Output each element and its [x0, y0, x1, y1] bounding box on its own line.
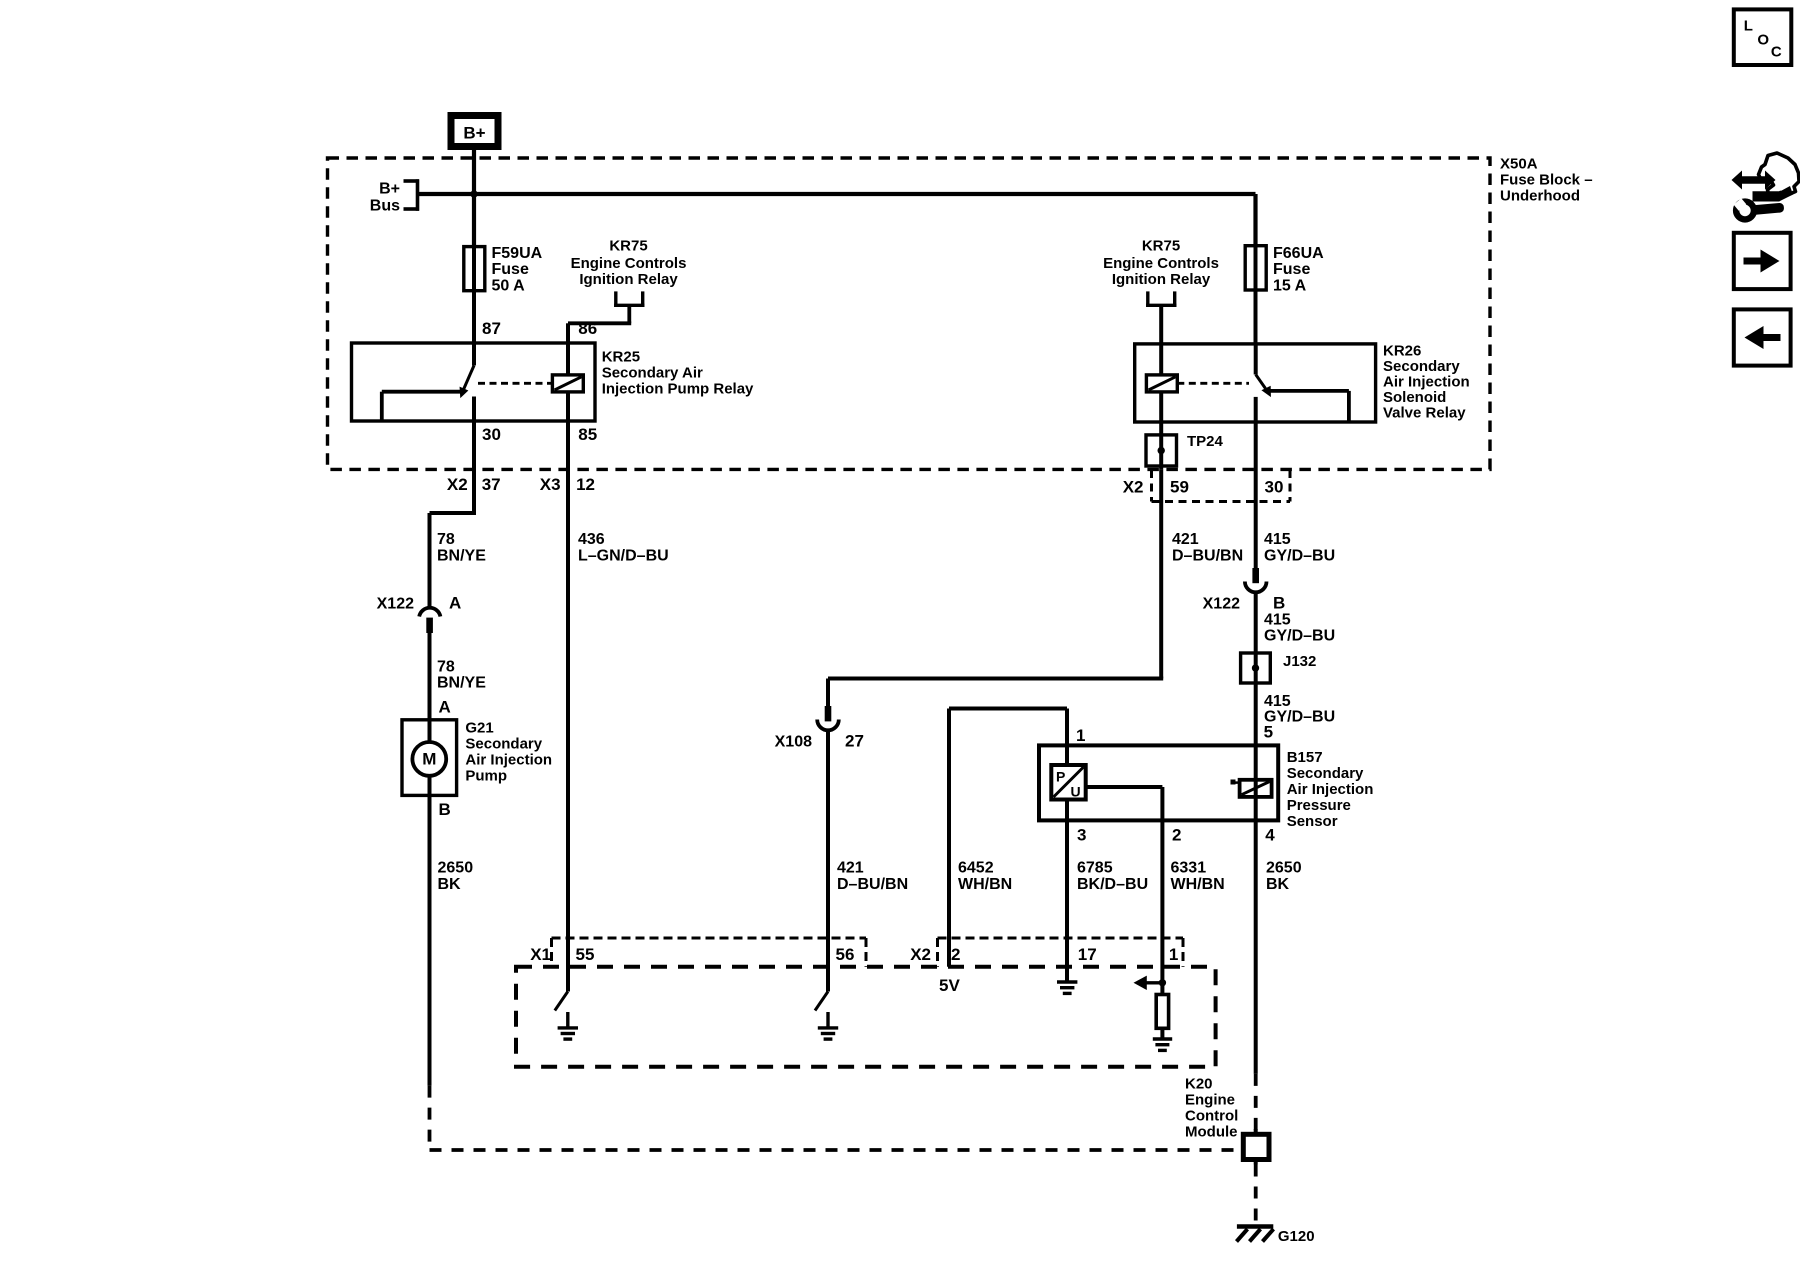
label wire 78 BN/YE upper: [437, 531, 486, 565]
label wire 421 D-BU/BN (upper right): [1172, 531, 1243, 565]
svg-text:17: 17: [1078, 945, 1097, 964]
inline connector X122 B symbol: [1245, 568, 1267, 592]
label wire 415 GY/D-BU lower: [1264, 693, 1335, 726]
relay KR25 coil: [552, 375, 583, 392]
label wire 2650 BK left: [438, 860, 474, 894]
relay KR26 coil: [1146, 375, 1177, 392]
svg-text:56: 56: [836, 945, 855, 964]
svg-text:L–GN/D–BU: L–GN/D–BU: [578, 548, 669, 565]
ground G120 symbol: [1237, 1227, 1274, 1242]
svg-text:1: 1: [1169, 945, 1178, 964]
splice box (ground junction): [1243, 1129, 1269, 1165]
junction B+ bus: [470, 190, 477, 197]
inline connector X122 A symbol: [419, 608, 440, 633]
svg-text:12: 12: [576, 475, 595, 494]
wire ECM X2-2 5V to sensor pin 1: [949, 709, 1067, 967]
svg-text:415: 415: [1264, 531, 1291, 548]
connector X2 dashed box (ECM): [938, 938, 1184, 967]
relay KR25 pin 30 wire: [472, 397, 476, 422]
wire KR75 left to KR25 pin 86: [568, 305, 631, 343]
svg-text:X2: X2: [447, 475, 468, 494]
label KR75 Engine Controls Ignition Relay (right): [1103, 238, 1219, 289]
svg-text:TP24: TP24: [1187, 433, 1224, 450]
wire through pump G21: [428, 720, 432, 796]
svg-text:KR26: KR26: [1383, 343, 1421, 360]
sensor B157 box: [1039, 745, 1278, 820]
dashed ground run from pump: [430, 1086, 1244, 1150]
svg-text:B: B: [1273, 594, 1285, 613]
svg-text:30: 30: [1265, 478, 1284, 497]
svg-text:BK: BK: [1266, 876, 1290, 893]
svg-text:Secondary Air: Secondary Air: [602, 365, 703, 382]
label wire 78 BN/YE lower: [437, 659, 486, 692]
label KR26 Secondary Air Injection Solenoid Valve Relay: [1383, 343, 1470, 422]
wire bus right vertical to fuse F66UA: [1253, 194, 1257, 246]
svg-text:78: 78: [437, 659, 455, 676]
svg-text:Fuse: Fuse: [492, 261, 529, 278]
splice J132: [1241, 653, 1271, 683]
svg-text:X122: X122: [1203, 596, 1240, 613]
icon arrow left box: [1734, 309, 1791, 365]
svg-text:Fuse Block –: Fuse Block –: [1500, 171, 1593, 188]
wire X2-59 down: [1159, 469, 1163, 678]
label KR25 Secondary Air Injection Pump Relay: [602, 349, 754, 398]
svg-text:27: 27: [845, 732, 864, 751]
bracket under KR75 left: [614, 291, 644, 307]
svg-text:Engine: Engine: [1185, 1091, 1235, 1108]
svg-text:Fuse: Fuse: [1273, 261, 1310, 278]
dashed wire sensor pin 4 to splice: [1254, 1074, 1258, 1134]
label wire 421 D-BU/BN (lower): [837, 860, 908, 894]
svg-text:GY/D–BU: GY/D–BU: [1264, 628, 1335, 645]
relay KR26 switch output wire: [1254, 397, 1258, 422]
svg-text:4: 4: [1265, 825, 1275, 844]
svg-text:X108: X108: [775, 734, 812, 751]
label KR75 Engine Controls Ignition Relay (left): [571, 238, 687, 289]
svg-text:415: 415: [1264, 693, 1291, 710]
svg-text:K20: K20: [1185, 1075, 1213, 1092]
ground (ECM pin 17): [1057, 981, 1077, 994]
svg-text:30: 30: [482, 425, 501, 444]
wire B+ Bus horizontal: [418, 192, 1256, 196]
svg-text:15 A: 15 A: [1273, 278, 1307, 295]
svg-text:Bus: Bus: [370, 198, 400, 215]
label K20 Engine Control Module: [1185, 1075, 1238, 1140]
wire P/U pin 3 down: [1065, 800, 1069, 981]
svg-text:O: O: [1757, 32, 1769, 49]
svg-text:Secondary: Secondary: [1383, 358, 1460, 375]
relay KR25 coil link dashed: [478, 382, 552, 385]
svg-text:B157: B157: [1287, 749, 1323, 766]
svg-text:Air Injection: Air Injection: [1287, 781, 1374, 798]
svg-text:X2: X2: [1123, 478, 1144, 497]
wire sensor pin 1 to P/U: [1065, 745, 1069, 765]
relay KR26 box: [1135, 344, 1376, 422]
ECM driver switch (pin 55): [555, 992, 568, 1011]
svg-text:78: 78: [437, 531, 455, 548]
svg-text:87: 87: [482, 319, 501, 338]
ground (ECM pin 55): [558, 1012, 578, 1039]
svg-text:1: 1: [1076, 726, 1085, 745]
relay KR25 switch pin 87 stub: [472, 343, 476, 366]
svg-text:X2: X2: [910, 945, 931, 964]
svg-text:Engine Controls: Engine Controls: [571, 255, 687, 272]
label wire 6452 WH/BN: [958, 860, 1012, 894]
P/U transducer symbol: [1051, 765, 1085, 800]
svg-text:Injection Pump Relay: Injection Pump Relay: [602, 381, 754, 398]
pressure element symbol: [1231, 780, 1272, 797]
svg-text:L: L: [1744, 18, 1753, 35]
relay KR25 87a contact L-wire: [382, 392, 464, 421]
relay KR25 coil pin 85 wire: [566, 392, 570, 421]
svg-text:F59UA: F59UA: [492, 245, 543, 262]
wire KR75 right to KR26 coil pin 86: [1159, 305, 1163, 344]
fuse block X50A dashed outline: [328, 158, 1491, 469]
relay KR25 box: [352, 343, 596, 421]
svg-text:X50A: X50A: [1500, 155, 1538, 172]
wire through fuse F59UA: [472, 247, 476, 343]
svg-text:G120: G120: [1278, 1228, 1315, 1245]
svg-text:59: 59: [1170, 478, 1189, 497]
svg-text:6785: 6785: [1077, 860, 1113, 877]
label X50A Fuse Block - Underhood: [1500, 155, 1593, 204]
svg-text:85: 85: [578, 425, 597, 444]
relay KR25 switch arm: [460, 366, 474, 397]
wire X108 to ECM X1-56: [826, 731, 830, 992]
svg-text:B+: B+: [379, 181, 400, 198]
svg-text:Solenoid: Solenoid: [1383, 389, 1446, 406]
signal arrow (ECM pin 1): [1134, 976, 1167, 990]
dashed wire splice to G120: [1254, 1165, 1258, 1225]
svg-text:GY/D–BU: GY/D–BU: [1264, 548, 1335, 565]
wire pump G21 to ground run: [428, 795, 432, 1085]
svg-text:WH/BN: WH/BN: [1171, 876, 1225, 893]
wire pin30 to connector X2-37: [472, 421, 476, 513]
svg-text:BN/YE: BN/YE: [437, 675, 486, 692]
bracket under KR75 right: [1146, 291, 1176, 307]
svg-text:2: 2: [951, 945, 960, 964]
fuse F59UA 50 A: [464, 247, 485, 291]
svg-text:M: M: [422, 750, 436, 769]
wire X122-A to pump G21: [428, 633, 432, 720]
relay KR25 coil pin 86 wire: [566, 343, 570, 375]
svg-text:2: 2: [1172, 825, 1181, 844]
svg-text:KR25: KR25: [602, 349, 640, 366]
relay KR26 87a contact L-wire: [1270, 391, 1349, 422]
svg-text:Underhood: Underhood: [1500, 187, 1580, 204]
svg-text:Ignition Relay: Ignition Relay: [1112, 271, 1211, 288]
svg-text:KR75: KR75: [609, 238, 647, 255]
icon LOC box: [1734, 9, 1792, 65]
svg-text:Valve Relay: Valve Relay: [1383, 405, 1466, 422]
svg-text:G21: G21: [465, 720, 493, 737]
svg-text:KR75: KR75: [1142, 238, 1180, 255]
svg-text:50 A: 50 A: [492, 278, 526, 295]
svg-text:3: 3: [1077, 825, 1086, 844]
motor M circle: [412, 742, 446, 776]
svg-text:D–BU/BN: D–BU/BN: [837, 876, 908, 893]
label F59UA Fuse 50 A: [492, 245, 543, 295]
svg-text:BN/YE: BN/YE: [437, 548, 486, 565]
wire P/U right to sensor pin 2: [1086, 787, 1163, 983]
svg-text:B+: B+: [463, 124, 485, 143]
svg-text:P: P: [1056, 769, 1065, 785]
svg-text:BK: BK: [438, 876, 462, 893]
label wire 436 L-GN/D-BU: [578, 531, 669, 565]
svg-text:Secondary: Secondary: [465, 736, 542, 753]
relay KR26 coil pin 85 wire: [1159, 392, 1163, 435]
svg-text:X1: X1: [530, 945, 551, 964]
connector X1 dashed box: [552, 938, 867, 967]
svg-text:2650: 2650: [438, 860, 474, 877]
relay KR26 switch pin 30 stub: [1254, 344, 1258, 375]
svg-text:Control: Control: [1185, 1107, 1238, 1124]
icon diagnostic tools: [1732, 153, 1800, 219]
wire KR26 switch to connector 30: [1254, 422, 1258, 568]
label wire 2650 BK right: [1266, 860, 1302, 894]
svg-text:Secondary: Secondary: [1287, 765, 1364, 782]
power symbol B+: [451, 116, 498, 147]
svg-text:5V: 5V: [939, 976, 960, 995]
svg-text:BK/D–BU: BK/D–BU: [1077, 876, 1148, 893]
svg-text:421: 421: [1172, 531, 1199, 548]
pump G21 box: [402, 720, 457, 796]
svg-text:GY/D–BU: GY/D–BU: [1264, 709, 1335, 726]
relay KR26 switch arm: [1256, 375, 1271, 396]
wire through fuse F66UA: [1254, 246, 1258, 344]
resistor R (ECM pin 1): [1156, 983, 1168, 1039]
connector X2 dashed box (right): [1152, 470, 1291, 502]
svg-text:86: 86: [578, 319, 597, 338]
label wire 415 GY/D-BU upper: [1264, 531, 1335, 565]
svg-text:Engine Controls: Engine Controls: [1103, 255, 1219, 272]
wire B+ vertical to fuse F59UA: [472, 150, 476, 247]
label wire 6785 BK/D-BU: [1077, 860, 1148, 894]
svg-text:WH/BN: WH/BN: [958, 876, 1012, 893]
svg-text:37: 37: [482, 475, 501, 494]
icon arrow right box: [1734, 233, 1791, 289]
wire X122-B to J132: [1254, 593, 1258, 653]
svg-text:C: C: [1771, 44, 1782, 61]
wire pin85 down to ECM X1-55: [566, 421, 570, 992]
svg-text:421: 421: [837, 860, 864, 877]
svg-text:X122: X122: [377, 596, 414, 613]
svg-text:U: U: [1071, 784, 1081, 800]
label wire 6331 WH/BN: [1171, 860, 1225, 894]
wire X2-59 jog left to X108: [828, 679, 1163, 707]
wire 415 into sensor pin 5: [1254, 683, 1258, 745]
svg-text:Air Injection: Air Injection: [465, 752, 552, 769]
svg-text:F66UA: F66UA: [1273, 245, 1324, 262]
inline connector X108 symbol: [817, 706, 839, 730]
wire jog X2-37 to x122 column: [430, 513, 477, 607]
svg-text:Pressure: Pressure: [1287, 797, 1351, 814]
label F66UA Fuse 15 A: [1273, 245, 1324, 295]
svg-text:Sensor: Sensor: [1287, 813, 1338, 830]
svg-text:Ignition Relay: Ignition Relay: [579, 271, 678, 288]
svg-text:Pump: Pump: [465, 768, 507, 785]
relay KR26 coil pin 86 wire: [1159, 344, 1163, 375]
svg-text:436: 436: [578, 531, 605, 548]
svg-text:A: A: [439, 698, 451, 717]
svg-text:2650: 2650: [1266, 860, 1302, 877]
wire KR26 pin85 through TP24: [1159, 435, 1163, 470]
ground (ECM pin 56): [818, 1012, 838, 1039]
fuse F66UA 15 A: [1245, 246, 1266, 290]
wire through sensor pin 4: [1254, 745, 1258, 1074]
svg-text:A: A: [449, 594, 461, 613]
label wire 415 GY/D-BU middle: [1264, 612, 1335, 645]
node B+ Bus bracket: [370, 179, 419, 214]
ECM driver switch (pin 56): [815, 992, 828, 1011]
svg-text:Module: Module: [1185, 1123, 1238, 1140]
svg-text:B: B: [439, 800, 451, 819]
svg-text:D–BU/BN: D–BU/BN: [1172, 548, 1243, 565]
relay KR26 coil link dashed: [1177, 382, 1249, 385]
label G21 Secondary Air Injection Pump: [465, 720, 552, 785]
svg-text:415: 415: [1264, 612, 1291, 629]
svg-text:X3: X3: [540, 475, 561, 494]
svg-text:6331: 6331: [1171, 860, 1207, 877]
ground (ECM pin 1 resistor): [1153, 1039, 1172, 1050]
svg-text:Air Injection: Air Injection: [1383, 374, 1470, 391]
svg-text:J132: J132: [1283, 653, 1316, 670]
svg-text:55: 55: [576, 945, 595, 964]
label B157 Secondary Air Injection Pressure Sensor: [1287, 749, 1374, 830]
ECM K20 dashed box: [516, 967, 1216, 1067]
svg-text:6452: 6452: [958, 860, 994, 877]
test point TP24: [1146, 435, 1177, 466]
